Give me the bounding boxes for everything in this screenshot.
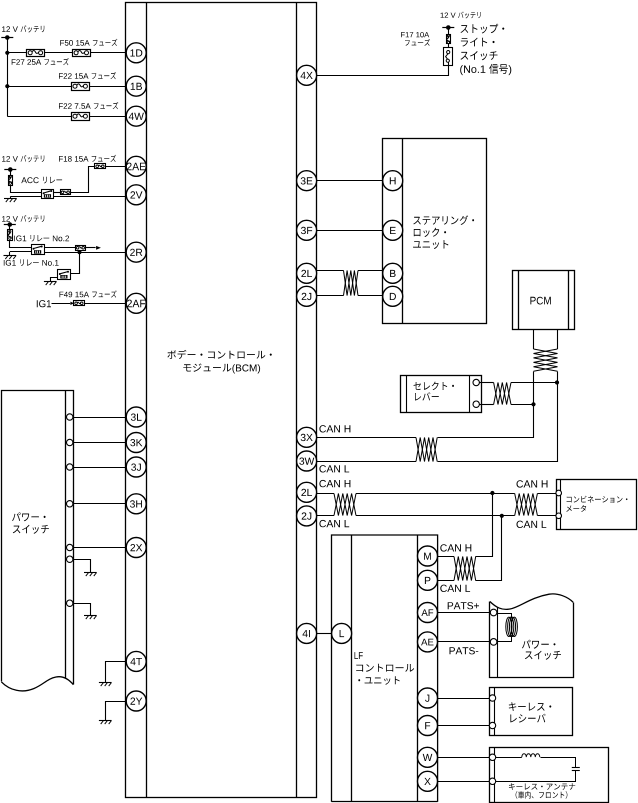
battery B+ node stop light — [442, 25, 454, 34]
fusible link ACC — [9, 176, 13, 186]
label CAN H row1 — [319, 425, 350, 432]
battery label IG1 — [2, 215, 44, 222]
wire CAN H drop to M — [476, 494, 493, 557]
select lever label — [414, 382, 455, 401]
connector 3H — [126, 494, 146, 514]
terminal power switch 2X — [67, 544, 73, 550]
wire fusible link to ACC relay — [11, 186, 42, 193]
twisted pair CAN row2 left — [334, 494, 356, 516]
connector 2X — [126, 538, 146, 558]
connector 1D — [126, 43, 146, 63]
pin AE — [418, 632, 438, 652]
stop light switch — [444, 43, 453, 65]
wire junction down to relay No.1 — [71, 253, 80, 274]
fuse F22 15A — [72, 83, 90, 91]
wire power switch to 3J — [73, 467, 126, 469]
connector 2R — [126, 242, 146, 262]
BCM box (body control module) — [126, 2, 317, 798]
wire ACC relay coil to 2V — [54, 196, 127, 198]
battery label ACC — [2, 155, 44, 162]
wire 4I to L — [317, 633, 332, 635]
power switch box (right) — [490, 594, 574, 678]
label CAN L row1 — [319, 465, 349, 472]
wire ACC relay to fuse — [54, 192, 60, 194]
wire relay No.2 coil to 2R — [44, 250, 126, 254]
terminal power switch 3J — [67, 464, 73, 470]
label F22 15A — [59, 72, 116, 79]
keyless receiver terminals — [489, 695, 495, 729]
wire select lever lower — [479, 404, 533, 406]
twisted pair select lever — [494, 383, 511, 405]
connector 3W — [297, 451, 317, 471]
connector 2L row2 — [297, 482, 317, 502]
wire relay No.2 switch out — [44, 247, 96, 249]
wire power switch to 3K — [73, 442, 126, 444]
pin M — [418, 546, 438, 566]
terminal power switch 3H — [67, 501, 73, 507]
wire PCM right down to CAN L — [438, 372, 560, 462]
connector 3K — [126, 433, 146, 453]
fuse F22 7.5A — [72, 113, 90, 121]
combination meter label — [566, 496, 627, 512]
wire F49 to 2AF — [84, 303, 126, 305]
keyless antenna box — [490, 747, 609, 802]
wire power switch to 3H — [73, 503, 126, 505]
wire W to antenna — [437, 757, 489, 759]
wire 3W CAN L — [317, 461, 416, 463]
wire select lever upper — [479, 382, 557, 384]
connector 2Y with ground — [99, 691, 146, 724]
connector 4W — [126, 106, 146, 126]
connector 2V — [126, 185, 146, 205]
wire power switch to 2X — [73, 547, 126, 549]
wire X to antenna — [437, 781, 489, 783]
antenna capacitor — [496, 758, 580, 782]
connector 2AE — [126, 156, 146, 176]
pin F — [418, 716, 438, 736]
pin AF — [418, 603, 438, 623]
wire AF PATS+ — [437, 612, 490, 614]
steering lock label — [413, 215, 474, 249]
wire power switch to 3L — [73, 417, 126, 419]
LF control unit label — [355, 652, 415, 685]
LF control unit box — [332, 535, 438, 802]
ground IG1 relay No.1 — [44, 278, 58, 286]
pin X — [418, 771, 438, 791]
pin E — [383, 220, 403, 240]
PCM label — [530, 297, 550, 305]
fuse F49 15A — [74, 301, 85, 306]
pin W — [418, 747, 438, 767]
antenna coil — [496, 754, 540, 758]
wire CAN L drop to P — [476, 516, 502, 581]
battery B+ node top-left — [1, 35, 13, 116]
pin B — [383, 263, 403, 283]
battery label stop light — [441, 12, 481, 19]
twisted pair CAN row1 — [416, 438, 437, 462]
wire 1D row — [5, 51, 126, 55]
pin L — [332, 623, 352, 643]
label F17 — [401, 32, 430, 46]
keyless antenna terminals — [489, 754, 495, 784]
connector 2J row2 — [297, 506, 317, 526]
pin H — [383, 171, 403, 191]
fuse F18 15A — [95, 164, 106, 169]
ground IG1 relay No.2 coil — [4, 252, 32, 260]
keyless receiver label — [509, 702, 552, 722]
terminal power switch 3K — [67, 439, 73, 445]
wire 2J CAN L row2 — [317, 514, 515, 518]
relay IG1 No.1 — [58, 270, 71, 280]
wire 2J to D — [317, 295, 383, 297]
fuse IG1 No.2 output — [76, 246, 86, 251]
label F18 — [59, 155, 116, 162]
wire F to keyless receiver — [437, 725, 489, 727]
connector 1B — [126, 76, 146, 96]
connector 3J — [126, 457, 146, 477]
keyless antenna label — [509, 783, 575, 799]
fuse F17 10A — [447, 35, 451, 44]
label F27 — [12, 58, 69, 65]
connector 3E — [297, 171, 317, 191]
connector 2AF — [126, 293, 146, 313]
connector 3X — [297, 427, 317, 447]
wire twist to comb meter — [537, 494, 556, 516]
connector 2L — [297, 263, 317, 283]
battery label — [2, 25, 44, 32]
relay IG1 No.2 — [32, 245, 45, 255]
wire AE PATS- — [437, 641, 490, 643]
power switch ground terminal 1 — [67, 556, 97, 576]
select lever box — [401, 375, 482, 412]
PCM box — [513, 270, 575, 330]
labels PATS — [448, 602, 479, 654]
power switch ground terminal 2 — [67, 600, 97, 619]
label ACC relay — [21, 177, 62, 184]
wire 2L CAN H row2 — [317, 491, 515, 495]
wire P to twist — [437, 580, 454, 582]
label IG1 relay No.2 — [14, 235, 69, 242]
label F50 — [60, 39, 117, 46]
terminal power switch 3L — [67, 414, 73, 420]
connector 4I — [297, 623, 317, 643]
wire 3X CAN H — [317, 437, 416, 439]
BCM label — [167, 350, 271, 374]
twisted pair CAN row2 right — [515, 494, 538, 516]
pin J — [418, 688, 438, 708]
steering lock unit box — [383, 138, 487, 324]
wire stop light switch to 4X — [317, 63, 449, 76]
battery B+ node IG1 — [4, 222, 16, 230]
keyless receiver box — [490, 688, 573, 736]
label stop light switch — [460, 24, 511, 75]
power switch label (right) — [522, 640, 561, 660]
wire fuse to 2AE — [71, 167, 127, 193]
fuse F27 25A — [27, 50, 45, 57]
label IG1 feed — [37, 300, 51, 307]
power switch right terminals — [490, 609, 497, 645]
fuse ACC output — [61, 190, 71, 195]
PCM trunk wires — [534, 330, 558, 349]
labels CAN M/P — [440, 544, 471, 592]
fuse F50 15A — [73, 50, 91, 57]
twisted pair PCM — [534, 349, 558, 371]
combination meter terminals — [556, 490, 562, 518]
pin P — [418, 570, 438, 590]
wire 4W row — [7, 116, 126, 118]
wire 1B row — [5, 84, 126, 88]
connector 3F — [297, 220, 317, 240]
connector 4T with ground — [99, 651, 146, 686]
wire PCM left down to CAN H — [438, 372, 536, 438]
combination meter box — [557, 479, 637, 529]
wire 2L to B with twisted pair — [317, 270, 383, 272]
labels CAN row2 — [319, 480, 547, 528]
arrow IG1 No.2 output — [96, 246, 101, 250]
connector 4X — [297, 65, 317, 85]
connector 2J — [297, 286, 317, 306]
ground ACC relay coil — [4, 197, 41, 203]
wire 3F to E — [317, 230, 383, 232]
wire IG1 to fuse F49 — [52, 302, 75, 305]
relay ACC — [42, 190, 54, 199]
wire J to keyless receiver — [437, 698, 489, 700]
battery B+ node ACC — [4, 167, 16, 175]
wire fusible link to IG1 relay No.2 — [10, 241, 32, 248]
wire 3E to H — [317, 180, 383, 182]
pin D — [383, 286, 403, 306]
select lever terminals — [473, 379, 479, 407]
label F22 7.5A — [59, 102, 118, 109]
label F49 — [60, 290, 117, 297]
power switch label (left) — [12, 512, 49, 533]
twisted pair M/P — [454, 557, 476, 581]
power switch box (left) — [1, 391, 73, 691]
power switch coil — [497, 613, 517, 642]
wire M to twist — [437, 556, 454, 558]
label IG1 relay No.1 — [4, 259, 59, 266]
twisted pair 2L/2J — [344, 271, 359, 296]
fusible link IG1 — [8, 230, 13, 241]
connector 3L — [126, 407, 146, 427]
